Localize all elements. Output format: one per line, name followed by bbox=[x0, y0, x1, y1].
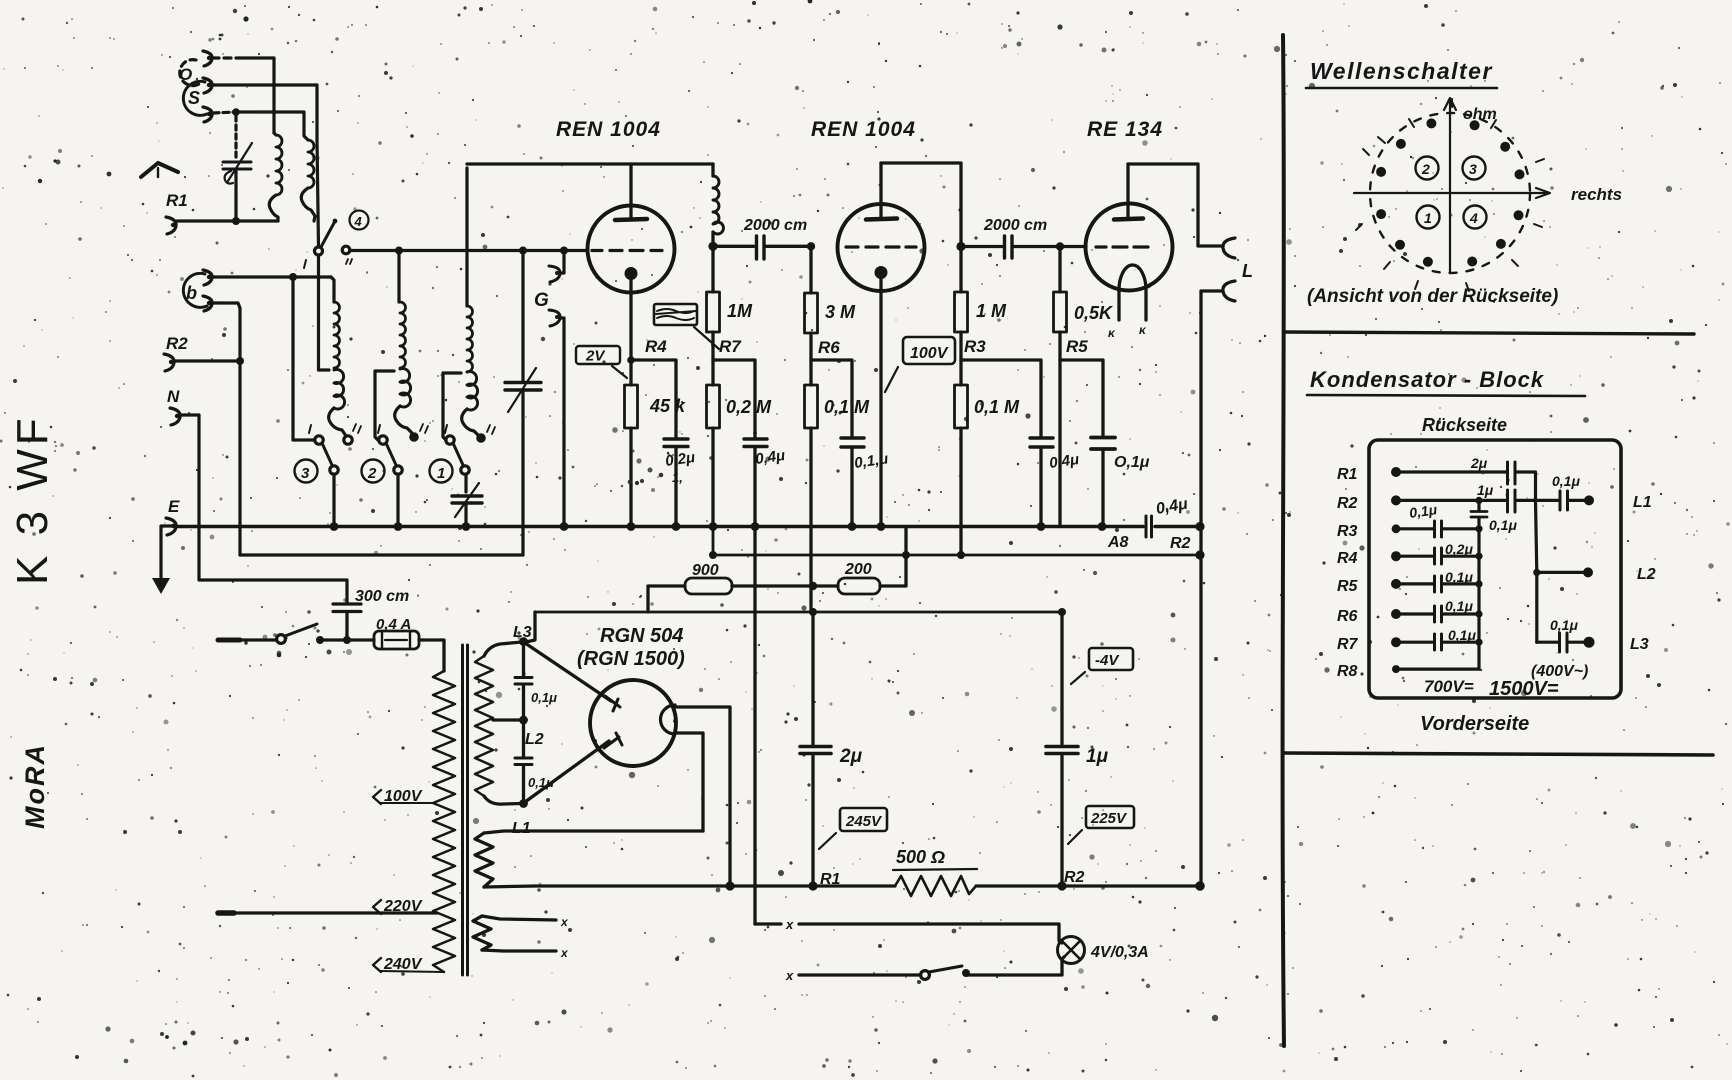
svg-text:R5: R5 bbox=[1337, 578, 1359, 595]
capacitor 0.4u series bus bbox=[1146, 496, 1189, 537]
svg-text:0,1μ: 0,1μ bbox=[1550, 617, 1578, 633]
resistor 900 bbox=[648, 562, 838, 612]
node cathode V1 bbox=[627, 356, 635, 364]
svg-text:1 M: 1 M bbox=[976, 301, 1007, 321]
capacitor antenna trimmer bbox=[223, 116, 252, 221]
svg-text:O: O bbox=[179, 65, 192, 84]
capacitor 0.1u L2-L1 bbox=[515, 720, 554, 804]
svg-text:4V/0,3A: 4V/0,3A bbox=[1090, 944, 1149, 961]
inductor L1 tuning coil bbox=[462, 168, 495, 443]
wire E bus bbox=[175, 525, 1200, 529]
node tuning cap bbox=[519, 247, 527, 255]
node 300cm junction bbox=[343, 636, 351, 644]
filament dome V3 bbox=[1119, 265, 1146, 320]
svg-text:N: N bbox=[167, 387, 180, 406]
svg-text:(Ansicht von der Rückseite): (Ansicht von der Rückseite) bbox=[1307, 286, 1558, 307]
wire O to coil La bbox=[212, 56, 240, 59]
node cap bottom bbox=[232, 217, 240, 225]
svg-text:2000 cm: 2000 cm bbox=[743, 217, 807, 234]
svg-text:0,1 M: 0,1 M bbox=[974, 397, 1020, 417]
tube V1 REN1004 bbox=[588, 164, 675, 385]
node R2 junction bbox=[1475, 497, 1482, 504]
capacitor 0.4u R3 bbox=[1030, 438, 1080, 526]
svg-text:2000 cm: 2000 cm bbox=[983, 217, 1047, 234]
svg-text:0,1μ: 0,1μ bbox=[1448, 627, 1476, 643]
wire bias corner to L3 bbox=[528, 612, 535, 642]
mains input stub bbox=[218, 638, 240, 643]
switch position 2 bbox=[1416, 157, 1439, 180]
block outline bbox=[1369, 440, 1621, 698]
contact dots bbox=[1376, 118, 1524, 266]
lamp 4V 0.3A bbox=[1058, 937, 1149, 964]
svg-text:MoRA: MoRA bbox=[20, 743, 50, 829]
node anode V1 coupling bbox=[708, 242, 717, 251]
label 225V box bbox=[1068, 806, 1134, 844]
terminal E hook bbox=[166, 518, 176, 535]
resistor R4 45k bbox=[625, 385, 687, 526]
svg-text:900: 900 bbox=[692, 562, 719, 579]
resistor 0.1M a bbox=[805, 360, 871, 612]
svg-text:R2: R2 bbox=[1064, 869, 1085, 886]
svg-text:rechts: rechts bbox=[1571, 185, 1622, 204]
wire return line left bbox=[240, 554, 523, 557]
svg-text:45 k: 45 k bbox=[649, 396, 686, 416]
resistor R5 0.5K bbox=[1054, 247, 1115, 527]
antenna R1 chevron bbox=[141, 163, 178, 177]
ground arrow bbox=[161, 526, 171, 578]
resistor R6 3M bbox=[805, 246, 857, 360]
transformer core bbox=[463, 645, 468, 975]
svg-text:700V=: 700V= bbox=[1424, 677, 1474, 696]
wire L2 branch bbox=[1533, 500, 1593, 642]
svg-text:x: x bbox=[785, 968, 794, 983]
label 245V box bbox=[819, 808, 887, 849]
wire heater x lower with switch bbox=[785, 957, 1064, 983]
svg-text:100V: 100V bbox=[910, 345, 949, 362]
svg-text:R4: R4 bbox=[1337, 550, 1358, 567]
svg-text:A8: A8 bbox=[1107, 534, 1129, 551]
node antenna junction bbox=[232, 108, 240, 116]
svg-text:2V: 2V bbox=[585, 348, 606, 365]
svg-text:3: 3 bbox=[1469, 161, 1477, 177]
svg-text:O,1μ: O,1μ bbox=[1114, 454, 1150, 471]
wire rectifier output bbox=[675, 707, 730, 886]
wire L lower to bus bbox=[1201, 291, 1222, 886]
terminal N hook bbox=[170, 408, 180, 425]
terminal G lower hook bbox=[549, 310, 564, 526]
switch 4 bbox=[304, 211, 369, 269]
wire grid V3 bbox=[1060, 245, 1086, 248]
wire L3 diagonal to rectifier bbox=[525, 643, 611, 701]
capacitor 0.1u row R6 bbox=[1396, 598, 1483, 622]
transformer primary winding bbox=[433, 671, 455, 972]
svg-text:2: 2 bbox=[367, 465, 377, 482]
node coil2 top bbox=[395, 247, 403, 255]
svg-text:2μ: 2μ bbox=[1470, 455, 1488, 471]
svg-text:R7: R7 bbox=[1337, 636, 1359, 653]
svg-text:L1: L1 bbox=[1633, 494, 1652, 511]
svg-text:0,1μ: 0,1μ bbox=[1552, 473, 1580, 489]
terminal O bbox=[179, 51, 212, 86]
svg-text:REN 1004: REN 1004 bbox=[556, 118, 661, 141]
capacitor 0.1u row R3 bbox=[1396, 501, 1483, 537]
capacitor 0.4u R7 bbox=[744, 439, 786, 526]
svg-text:L2: L2 bbox=[525, 731, 544, 748]
capacitor 0.1u ground bus bbox=[1471, 500, 1517, 669]
wire R6 branch bbox=[811, 360, 852, 436]
capacitor 0.2u row R4 bbox=[1396, 541, 1483, 564]
transformer heater winding bbox=[473, 915, 569, 960]
capacitor 0.1u L3-L2 bbox=[515, 642, 557, 721]
label 100V box bbox=[885, 337, 955, 392]
capacitor 1u bbox=[1046, 612, 1109, 886]
svg-text:0,1μ: 0,1μ bbox=[531, 690, 557, 705]
wire to fuse bbox=[320, 638, 374, 641]
svg-text:R6: R6 bbox=[1337, 608, 1358, 625]
node bus dots bbox=[330, 522, 1205, 531]
svg-text:L3: L3 bbox=[513, 624, 532, 641]
svg-text:L3: L3 bbox=[1630, 636, 1649, 653]
svg-text:RE 134: RE 134 bbox=[1087, 118, 1163, 141]
wire N to 300cm cap bbox=[181, 415, 347, 603]
label switch 1 bbox=[430, 460, 453, 483]
terminal L upper hook bbox=[1223, 238, 1235, 258]
capacitor 0.1u to L3 bbox=[1537, 617, 1595, 652]
svg-text:R1: R1 bbox=[1337, 466, 1358, 483]
svg-text:R5: R5 bbox=[1066, 337, 1088, 356]
tap 220V wire bbox=[218, 898, 437, 915]
svg-text:1: 1 bbox=[437, 465, 445, 482]
svg-text:S: S bbox=[188, 88, 200, 108]
switch position 4 bbox=[1464, 206, 1487, 229]
svg-text:R8: R8 bbox=[1337, 663, 1358, 680]
capacitor 0.1u R6 bbox=[841, 438, 889, 526]
capacitor C 2000cm second bbox=[961, 217, 1060, 258]
wire output line bbox=[535, 884, 1200, 887]
svg-text:1μ: 1μ bbox=[1477, 482, 1494, 498]
wire row R8 bbox=[1396, 667, 1479, 670]
tap 240V bbox=[373, 956, 444, 973]
svg-text:4: 4 bbox=[1469, 210, 1478, 226]
terminal R2 hook bbox=[164, 354, 174, 371]
inductor L2 tuning coil bbox=[395, 254, 428, 442]
svg-text:R1: R1 bbox=[166, 191, 188, 210]
svg-text:Kondensator - Block: Kondensator - Block bbox=[1310, 367, 1545, 392]
node L1 bbox=[519, 799, 528, 808]
svg-text:RGN 504: RGN 504 bbox=[600, 625, 683, 647]
inductor choke 2000 bbox=[713, 164, 723, 246]
capacitor 0.1u R5 bbox=[1091, 438, 1150, 527]
wire R3 branch bbox=[961, 360, 1041, 436]
label 2V box bbox=[576, 346, 627, 378]
axis vertical bbox=[1444, 98, 1456, 273]
svg-text:REN 1004: REN 1004 bbox=[811, 118, 916, 141]
node bias dots bbox=[809, 608, 1066, 616]
svg-text:x: x bbox=[560, 946, 569, 960]
label switch 3 bbox=[295, 460, 318, 483]
contact ticks bbox=[1356, 99, 1544, 291]
node L2 bbox=[519, 716, 528, 725]
svg-text:R4: R4 bbox=[645, 337, 667, 356]
switch 3 bbox=[293, 281, 338, 526]
svg-text:0,2μ: 0,2μ bbox=[1445, 541, 1473, 557]
wire anode rail 2 bbox=[881, 163, 961, 247]
wire return line right bbox=[713, 527, 1200, 556]
svg-text:0,1μ: 0,1μ bbox=[1445, 598, 1473, 614]
capacitor C 2000cm first bbox=[713, 217, 811, 259]
terminal L lower hook bbox=[1223, 281, 1235, 301]
svg-text:(RGN 1500): (RGN 1500) bbox=[577, 648, 685, 670]
wire cathode branch bbox=[631, 360, 676, 437]
svg-text:K 3 WF: K 3 WF bbox=[8, 414, 57, 585]
capacitor 2u bbox=[800, 612, 863, 886]
node L3 bbox=[519, 637, 528, 646]
svg-text:3 M: 3 M bbox=[825, 302, 856, 322]
svg-text:300 cm: 300 cm bbox=[355, 588, 409, 605]
svg-text:Wellenschalter: Wellenschalter bbox=[1310, 58, 1493, 84]
svg-text:L1: L1 bbox=[512, 820, 531, 837]
svg-text:-4V: -4V bbox=[1095, 652, 1120, 669]
tube V3 RE134 bbox=[1086, 164, 1173, 291]
svg-text:L2: L2 bbox=[1637, 566, 1656, 583]
svg-text:R2: R2 bbox=[1337, 495, 1358, 512]
fuse 0.4A bbox=[374, 616, 419, 649]
wire switch4 tap to coil3 bbox=[319, 255, 330, 370]
tap 100V bbox=[373, 788, 433, 805]
capacitor 0.2u cathode bbox=[664, 439, 696, 526]
svg-text:x: x bbox=[785, 917, 794, 932]
resistor R7 1M bbox=[707, 246, 754, 360]
svg-text:3: 3 bbox=[301, 465, 310, 482]
wire bias line bbox=[535, 611, 1062, 614]
svg-text:1μ: 1μ bbox=[1086, 746, 1109, 767]
capacitor 0.1u to L1 bbox=[1552, 473, 1594, 510]
svg-text:L: L bbox=[1242, 261, 1253, 281]
svg-text:E: E bbox=[168, 497, 180, 516]
resistor 500ohm bbox=[893, 847, 977, 896]
inductor La antenna coil 1 bbox=[269, 133, 282, 221]
wire R7 branch bbox=[713, 360, 755, 437]
capacitor 300cm bbox=[333, 588, 409, 640]
switch 2 with tap bracket bbox=[375, 371, 402, 526]
svg-text:220V: 220V bbox=[383, 898, 423, 915]
wire S to switch4 pivot bbox=[212, 85, 317, 140]
wire anode rail 3 bbox=[1128, 164, 1222, 246]
svg-text:R3: R3 bbox=[1337, 523, 1358, 540]
axis horizontal bbox=[1354, 188, 1550, 198]
svg-text:0,1μ: 0,1μ bbox=[1445, 569, 1473, 585]
wire rectifier filament return bbox=[675, 733, 703, 831]
node b junction bbox=[289, 273, 297, 281]
svg-text:Rückseite: Rückseite bbox=[1422, 415, 1507, 435]
tube V4 RGN504 rectifier bbox=[590, 680, 676, 766]
svg-text:2μ: 2μ bbox=[839, 746, 863, 767]
switch mains bbox=[240, 624, 324, 644]
inductor L3 tuning coil bbox=[329, 277, 361, 444]
wire hook3 to coil Lb bbox=[213, 112, 236, 113]
svg-text:0,2 M: 0,2 M bbox=[726, 397, 772, 417]
capacitor main tuning bbox=[240, 254, 541, 555]
switch circle dashed bbox=[1370, 113, 1530, 273]
resistor 0.1M b bbox=[955, 360, 1021, 555]
resistor 200 bbox=[838, 527, 906, 595]
svg-text:1,: 1, bbox=[672, 470, 683, 485]
wire anode rail 1 bbox=[467, 162, 713, 165]
svg-text:1: 1 bbox=[1424, 210, 1432, 226]
tube V2 REN1004 bbox=[838, 163, 925, 526]
svg-text:R3: R3 bbox=[964, 337, 986, 356]
label switch 2 bbox=[362, 460, 385, 483]
svg-text:0,5K: 0,5K bbox=[1074, 303, 1114, 323]
svg-text:245V: 245V bbox=[845, 813, 883, 830]
resistor R3 1M bbox=[955, 247, 1008, 361]
terminal R1 hook bbox=[166, 217, 176, 234]
node output dots bbox=[725, 881, 1204, 891]
wire heater x upper bbox=[755, 917, 1062, 943]
label -4V box bbox=[1071, 648, 1133, 684]
capacitor padding trimmer bbox=[452, 483, 482, 526]
svg-text:x: x bbox=[560, 915, 569, 929]
wire b to coil3 top bbox=[212, 275, 331, 278]
svg-text:225V: 225V bbox=[1090, 810, 1128, 827]
wire R2 bbox=[175, 359, 240, 362]
node G hook bbox=[560, 247, 568, 255]
capacitor 0.1u row R5 bbox=[1396, 569, 1483, 592]
svg-text:R7: R7 bbox=[719, 337, 742, 356]
wire L1 diagonal to rectifier bbox=[525, 741, 609, 802]
switch 1 with tap bracket bbox=[443, 373, 469, 492]
svg-text:G: G bbox=[534, 290, 549, 311]
wire R1 to coil La bottom bbox=[177, 219, 278, 222]
svg-text:R2: R2 bbox=[1170, 535, 1191, 552]
svg-text:b: b bbox=[186, 283, 197, 303]
node R2 junction bbox=[236, 357, 244, 365]
svg-text:4: 4 bbox=[354, 214, 363, 229]
terminal G upper hook bbox=[549, 254, 564, 282]
transformer HV secondary bbox=[475, 642, 522, 804]
switch position 1 bbox=[1417, 206, 1440, 229]
terminal S body bbox=[183, 81, 207, 115]
capacitor 0.1u row R7 bbox=[1396, 627, 1483, 650]
divider vertical bbox=[1283, 35, 1284, 1046]
wire fuse to primary bbox=[419, 640, 444, 671]
node R6 grid bbox=[807, 242, 815, 250]
switch position 3 bbox=[1463, 157, 1486, 180]
resistor 0.2M bbox=[707, 360, 773, 526]
svg-text:R6: R6 bbox=[818, 338, 840, 357]
transformer 4V secondary bbox=[475, 831, 703, 887]
terminal S hook bottom bbox=[203, 107, 212, 122]
terminal S hook top bbox=[203, 78, 212, 93]
node 900-200 junction bbox=[809, 582, 817, 590]
wire R5 branch bbox=[1060, 360, 1103, 435]
svg-text:0,1μ: 0,1μ bbox=[1489, 517, 1517, 533]
divider horizontal lower bbox=[1284, 753, 1713, 755]
terminal b bbox=[183, 270, 212, 311]
label 100V scribbled box bbox=[654, 304, 719, 349]
svg-text:200: 200 bbox=[844, 561, 872, 578]
node anode V2 coupling bbox=[956, 242, 965, 251]
node return dots bbox=[709, 550, 1205, 559]
divider horizontal upper bbox=[1284, 332, 1694, 334]
inductor Lb antenna coil 2 bbox=[301, 140, 315, 221]
capacitor 2u row R1 bbox=[1396, 455, 1536, 500]
svg-text:500 Ω: 500 Ω bbox=[896, 847, 945, 867]
svg-text:1M: 1M bbox=[727, 301, 753, 321]
svg-text:1500V=: 1500V= bbox=[1489, 678, 1559, 700]
wire grid bus bbox=[350, 249, 586, 252]
svg-text:2: 2 bbox=[1421, 161, 1430, 177]
svg-text:0,1 M: 0,1 M bbox=[824, 397, 870, 417]
svg-text:R2: R2 bbox=[166, 334, 188, 353]
capacitor 1u row R2 bbox=[1396, 482, 1558, 512]
wire b lower to vertical bbox=[212, 303, 240, 555]
node R5 grid bbox=[1056, 242, 1064, 250]
wire 0.1u column down bbox=[753, 527, 756, 925]
